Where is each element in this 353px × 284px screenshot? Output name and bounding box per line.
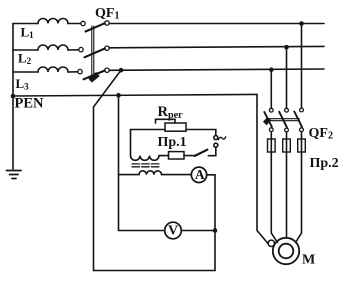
svg-text:Rрег: Rрег [158,104,184,121]
QF1 drive arrow (black) [90,74,98,81]
inductor: reactor power winding [139,171,162,175]
ammeter A [191,167,206,182]
AC terminal upper [214,136,218,140]
AC source tilde [218,137,225,140]
svg-text:L3: L3 [16,76,30,92]
QF2 pole2 blade [279,112,287,128]
QF2 pole1 lower contact [269,128,273,132]
svg-text:Пр.1: Пр.1 [158,135,187,150]
wire pole2 to fuse [286,132,288,152]
wire fuse3 to motor [296,152,302,243]
wire right rail vertical [214,175,216,271]
wire ammeter to right rail [207,174,215,176]
wire L3 right segment [109,69,324,70]
wire to ammeter [162,174,192,176]
reactor core (dashed double line) [132,164,161,167]
wire PEN drop vertical [118,95,120,230]
wire L3 to QF1 contact [68,71,78,73]
inductor: reactor control winding (humps down) [131,156,160,161]
node PEN-bus [11,94,16,99]
wire inside fuse2 [286,140,288,151]
node L3 right tap [269,67,274,72]
wire bottom rail [94,270,216,272]
svg-text:V: V [168,224,178,239]
svg-text:PEN: PEN [15,96,45,112]
QF1 pole2 left contact [79,47,83,51]
QF1 pole1 blade [86,23,105,31]
inductor L2 coil [38,45,68,50]
wire through fuse [159,155,169,157]
fuse Pr.1 body [169,152,185,159]
wire fuse1 to motor [271,152,277,243]
voltmeter V [165,222,182,239]
wire voltmeter line [119,230,165,232]
QF2 pole3 upper contact [300,108,304,112]
QF1 pole2 right contact [105,46,109,50]
inductor L3 coil [38,67,68,72]
QF2 pole3 lower contact [300,128,304,132]
AC terminal lower [214,143,218,147]
svg-text:L1: L1 [21,25,35,41]
wire rheostat branch right [186,130,216,136]
QF1 mechanical link (double line) [92,26,94,78]
wire pole1 to fuse [270,132,272,152]
QF1 pole3 blade [84,71,105,80]
wire PEN [13,94,257,96]
wire PEN right drop [257,94,268,243]
node L1 right tap [299,21,304,26]
svg-text:M: M [302,253,315,268]
wire fuse branch [184,155,195,157]
QF2 pole1 upper contact [269,108,273,112]
QF1 pole3 right contact [105,68,109,72]
svg-text:A: A [195,167,205,182]
QF2 mechanical link (double line) [267,119,300,121]
QF1 pole3 left contact [78,69,82,73]
node L2 right tap [284,45,289,50]
wire L1 right segment [109,23,324,25]
resistor Rreg body [165,123,186,131]
node PEN tap [116,93,121,98]
wire inside fuse1 [270,140,272,151]
inductor L1 coil [38,19,68,24]
fuse Pr.2 pole2 [283,139,291,152]
wire L1 to QF1 contact [68,23,81,25]
wire diagonal L3 tap to left rail [94,70,122,107]
wire AC terminal to switch contact [208,147,216,156]
PEN motor hook [268,240,274,246]
QF2 pole3 blade [294,112,302,127]
wire L2 left segment [13,49,38,51]
QF2 pole2 upper contact [285,108,289,112]
svg-text:L2: L2 [18,51,32,67]
node L3 tap [119,68,124,73]
wire inside fuse3 [301,140,303,151]
wire rheostat branch left [131,129,166,131]
svg-text:QF1: QF1 [95,6,119,22]
QF2 pole2 lower contact [285,128,289,132]
node voltmeter-right rail [213,228,218,233]
svg-text:Пр.2: Пр.2 [310,156,339,171]
QF2 drive arrow (black) [265,119,270,124]
wire left rail vertical [93,107,95,271]
wire L3 left segment [13,71,38,73]
svg-text:QF2: QF2 [309,126,333,142]
motor M [273,238,299,264]
wire L2 right segment [109,46,324,47]
wire control loop left vertical [130,130,132,156]
wire drop L3 to QF2 pole1 [270,70,272,109]
fuse Pr.2 pole1 [268,139,276,152]
QF2 pole1 blade [264,112,272,127]
fuse Pr.2 pole3 [298,139,306,152]
ground [7,171,22,179]
wire pole3 to fuse [301,132,303,152]
Rreg slider bracket [156,119,176,123]
QF1 pole1 left contact [81,21,85,25]
wire drop L2 to QF2 pole2 [286,47,288,108]
left bus vertical [12,24,14,170]
wire L1 left segment [13,23,38,25]
QF1 pole2 blade [85,49,105,58]
wire fuse2 to motor [286,152,288,238]
switch blade (control) [195,150,208,156]
wire ammeter line [119,174,140,176]
wire drop L1 to QF2 pole3 [301,24,303,108]
wire L2 to QF1 contact [68,49,79,51]
QF1 pole1 right contact [105,21,109,25]
